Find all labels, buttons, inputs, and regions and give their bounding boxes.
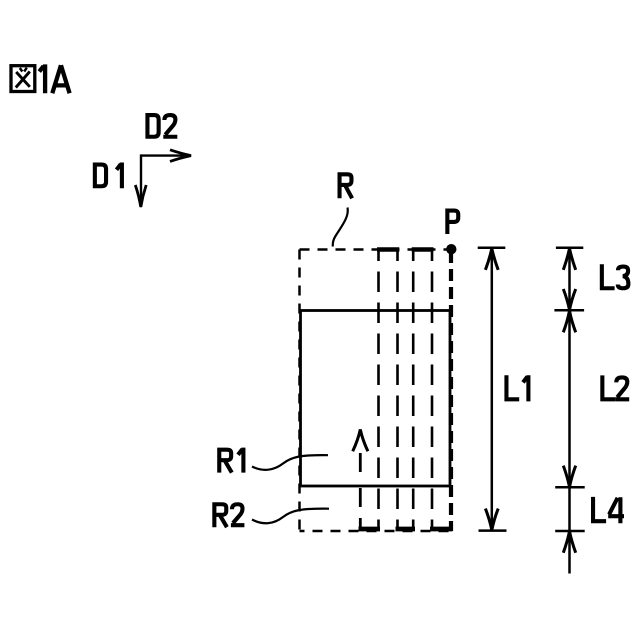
label P bbox=[447, 211, 458, 234]
rectangle R1 solid bbox=[301, 311, 451, 487]
label L2 bbox=[602, 375, 629, 399]
right dimension line bbox=[568, 248, 571, 573]
scan path bottom caps bbox=[359, 527, 453, 532]
arrowhead L3 up bbox=[563, 248, 575, 270]
wire R right edge thick dashed bbox=[449, 251, 453, 531]
leader R bbox=[333, 208, 348, 247]
label L1 bbox=[506, 375, 528, 401]
label 1A of title bbox=[39, 64, 69, 93]
point P dot bbox=[446, 244, 456, 254]
wire scan line 2 bbox=[396, 249, 399, 529]
leader R1 bbox=[252, 455, 328, 470]
direction arrow dashed stem bbox=[359, 453, 362, 529]
L1 top tick bbox=[478, 247, 506, 250]
wire R bottom edge bbox=[300, 530, 452, 533]
label L3 bbox=[602, 264, 629, 288]
tick L2/L4 bbox=[555, 486, 585, 489]
arrowhead L3 down bbox=[563, 289, 575, 310]
wire R top edge bbox=[300, 248, 452, 251]
arrowhead L2 down bbox=[563, 466, 575, 487]
arrowhead L1 down bbox=[485, 509, 498, 531]
wire scan line 3 bbox=[412, 249, 415, 529]
L1 bottom tick bbox=[479, 529, 507, 532]
dimension L1 line bbox=[491, 248, 494, 530]
serpentine scan path vertical dashed lines bbox=[379, 249, 433, 529]
wire axis vertical bbox=[140, 154, 142, 204]
wire R left edge bbox=[298, 250, 301, 532]
arrowhead L2 up bbox=[563, 311, 575, 333]
leader R2 bbox=[252, 509, 329, 524]
label R1 bbox=[219, 448, 243, 473]
tick L3/L2 bbox=[554, 309, 584, 312]
label D2 bbox=[147, 115, 177, 137]
arrowhead L1 up bbox=[485, 248, 498, 270]
arrowhead D2 right bbox=[170, 150, 191, 162]
wire scan line 4 bbox=[431, 249, 434, 529]
tick bottom bbox=[555, 530, 585, 533]
arrowhead L4 up from below bbox=[563, 531, 575, 553]
arrowhead direction up bbox=[353, 430, 368, 452]
scan path top caps bbox=[377, 247, 434, 252]
label D1 bbox=[95, 163, 122, 189]
label R bbox=[340, 174, 353, 198]
title 図1A bbox=[11, 66, 35, 92]
wire axis horizontal bbox=[141, 154, 188, 156]
label L4 bbox=[593, 497, 624, 523]
tick top bbox=[556, 247, 583, 250]
arrowhead D1 down bbox=[135, 185, 146, 207]
axis D1/D2 bbox=[141, 154, 188, 204]
label R2 bbox=[214, 504, 244, 527]
wire scan line 1 bbox=[377, 249, 380, 529]
region R dashed outline bbox=[300, 250, 452, 532]
